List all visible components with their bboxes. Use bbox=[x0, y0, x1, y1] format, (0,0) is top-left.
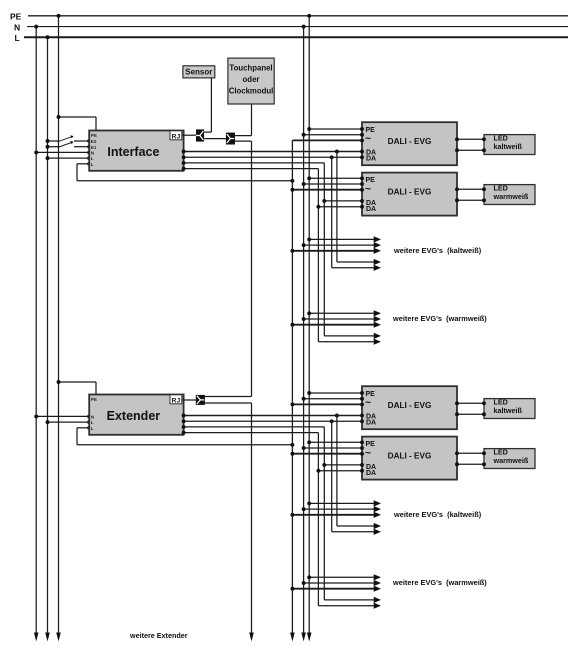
svg-text:DA: DA bbox=[366, 206, 376, 213]
svg-text:Clockmodul: Clockmodul bbox=[229, 86, 274, 95]
svg-text:PE: PE bbox=[91, 133, 97, 138]
svg-text:warmweiß: warmweiß bbox=[493, 456, 529, 465]
svg-text:DALI - EVG: DALI - EVG bbox=[388, 137, 432, 146]
svg-text:L: L bbox=[91, 156, 94, 161]
svg-text:Interface: Interface bbox=[107, 145, 159, 159]
svg-text:DALI - EVG: DALI - EVG bbox=[388, 401, 432, 410]
svg-text:Sensor: Sensor bbox=[185, 68, 212, 77]
svg-text:DA: DA bbox=[366, 419, 376, 426]
svg-text:weitere EVG's (warmweiß): weitere EVG's (warmweiß) bbox=[392, 314, 487, 323]
svg-text:PE: PE bbox=[10, 12, 22, 22]
svg-text:E1: E1 bbox=[91, 145, 97, 150]
svg-text:LED: LED bbox=[494, 133, 508, 142]
svg-text:kaltweiß: kaltweiß bbox=[494, 406, 523, 415]
svg-text:warmweiß: warmweiß bbox=[493, 192, 529, 201]
svg-text:LED: LED bbox=[494, 447, 508, 456]
svg-text:RJ: RJ bbox=[172, 133, 181, 140]
svg-text:weitere Extender: weitere Extender bbox=[129, 631, 188, 640]
svg-text:L: L bbox=[91, 426, 94, 431]
svg-text:DA: DA bbox=[366, 155, 376, 162]
svg-text:kaltweiß: kaltweiß bbox=[494, 142, 523, 151]
svg-text:weitere EVG's (warmweiß): weitere EVG's (warmweiß) bbox=[392, 578, 487, 587]
svg-text:LED: LED bbox=[494, 397, 508, 406]
svg-text:DA: DA bbox=[366, 470, 376, 477]
svg-text:~: ~ bbox=[365, 447, 371, 459]
svg-text:Extender: Extender bbox=[107, 409, 161, 423]
svg-text:weitere EVG's (kaltweiß): weitere EVG's (kaltweiß) bbox=[393, 510, 482, 519]
svg-text:L: L bbox=[91, 162, 94, 167]
svg-text:L: L bbox=[91, 420, 94, 425]
svg-text:N: N bbox=[14, 23, 20, 33]
svg-text:LED: LED bbox=[494, 183, 508, 192]
svg-text:E2: E2 bbox=[91, 139, 97, 144]
svg-text:DALI - EVG: DALI - EVG bbox=[388, 187, 432, 196]
svg-text:RJ: RJ bbox=[172, 397, 181, 404]
svg-text:~: ~ bbox=[365, 183, 371, 195]
svg-text:oder: oder bbox=[243, 75, 260, 84]
svg-text:PE: PE bbox=[91, 397, 97, 402]
svg-text:weitere EVG's (kaltweiß): weitere EVG's (kaltweiß) bbox=[393, 246, 482, 255]
svg-text:~: ~ bbox=[365, 133, 371, 145]
svg-text:~: ~ bbox=[365, 397, 371, 409]
svg-text:L: L bbox=[15, 33, 20, 43]
svg-text:DALI - EVG: DALI - EVG bbox=[388, 451, 432, 460]
svg-text:Touchpanel: Touchpanel bbox=[229, 64, 272, 73]
